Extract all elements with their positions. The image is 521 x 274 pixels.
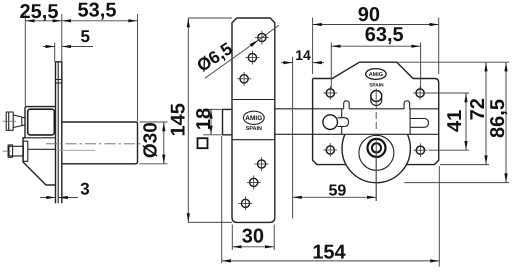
keeper bridge lines [232,99,275,101]
dim Ø30 [140,122,168,164]
svg-text:25,5: 25,5 [20,1,59,23]
svg-text:154: 154 [312,242,346,264]
side view lower body [23,138,56,185]
keeper plate [232,18,275,222]
svg-text:86,5: 86,5 [487,99,509,138]
dim 3 [40,180,90,199]
backplate outline [313,62,439,164]
cylinder rings [368,139,386,157]
svg-text:72: 72 [467,98,489,120]
dim 154 [222,136,440,267]
dim 145 [168,18,232,222]
cylinder collar [359,135,394,170]
housing edges [341,109,343,135]
side view lower rod [3,145,24,157]
svg-text:SPAIN: SPAIN [369,82,384,88]
centerline [46,143,141,145]
dim 18 [193,108,221,135]
svg-text:63,5: 63,5 [365,24,404,46]
svg-text:SPAIN: SPAIN [246,126,262,132]
bolt end box [223,109,233,134]
keeper logo AMIG [243,111,264,132]
bolt channel between views [275,108,313,110]
cylinder guard big circle [342,114,410,182]
dim 90 [313,4,439,74]
dim 14 [281,47,324,218]
svg-text:AMIG: AMIG [369,72,383,78]
side view upper lock box [25,107,56,138]
dim 5 [43,27,93,62]
dim 72 [397,62,509,164]
side view upper knob [3,112,26,130]
dim 63,5 [331,24,420,89]
svg-text:3: 3 [80,180,89,199]
dim 30 [232,225,274,251]
dim 41 [427,93,469,150]
bolt knob [323,115,349,130]
dim 59 [293,150,377,201]
svg-text:5: 5 [80,27,89,46]
svg-text:AMIG: AMIG [245,115,262,122]
svg-text:18: 18 [193,108,215,130]
keeper holes [255,31,269,45]
side view mounting plate [55,62,63,204]
svg-text:41: 41 [444,110,466,132]
dim 25,5 [20,1,62,106]
body logo [366,69,386,89]
square symbol [198,138,208,148]
side view bolt cylinder [62,122,138,164]
vertical centerline [375,89,377,109]
svg-text:59: 59 [329,182,347,199]
svg-text:145: 145 [168,103,190,136]
dim 86,5 [405,62,510,182]
white mask above channel bottom [313,100,438,134]
body holes [323,86,337,100]
dim Ø6,5 leader [193,25,279,78]
slots [344,101,350,109]
svg-text:14: 14 [295,47,311,63]
dim 53,5 [62,0,138,121]
bolt tongue [410,119,428,128]
svg-text:Ø30: Ø30 [141,122,162,158]
svg-text:90: 90 [358,4,380,26]
svg-text:53,5: 53,5 [78,0,117,22]
svg-text:30: 30 [242,225,264,247]
bolt channel on body [313,108,344,110]
pivot knob circles [371,91,382,106]
